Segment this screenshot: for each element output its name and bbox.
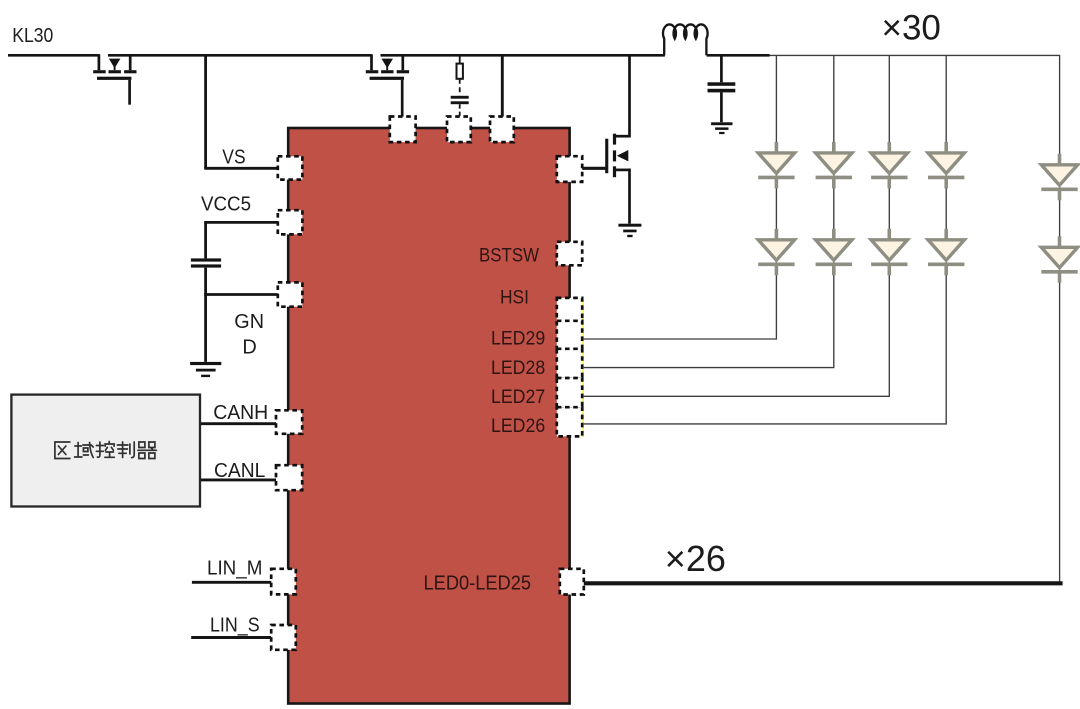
transistor Q1 PMOS high-side switch	[93, 54, 136, 104]
pin HSI	[557, 298, 582, 323]
svg-text:LED0-LED25: LED0-LED25	[424, 572, 532, 594]
LED D3 string2 top	[816, 142, 852, 189]
svg-text:D: D	[242, 336, 256, 358]
svg-text:LED29: LED29	[491, 329, 545, 350]
svg-text:CANH: CANH	[213, 402, 268, 424]
pin VCC5	[278, 210, 303, 234]
svg-text:×30: ×30	[882, 8, 941, 47]
pin VS	[278, 156, 303, 179]
svg-text:GN: GN	[234, 311, 264, 333]
wire GND horizontal to pin	[204, 293, 277, 296]
inductor L1	[663, 24, 708, 55]
wire LED0-LED25 bus x26	[584, 581, 1063, 585]
resistor R1 snubber	[457, 56, 463, 79]
transistor Q3 NMOS low-side	[605, 134, 629, 224]
wire LIN_M	[192, 581, 272, 584]
LED D1 string1 top	[758, 142, 794, 189]
svg-text:BSTSW: BSTSW	[479, 245, 539, 266]
LED D6 string3 bottom	[871, 229, 907, 275]
pin GND	[278, 282, 303, 306]
pin LED26	[557, 407, 582, 436]
wire thin top bus extension to LED strings	[768, 55, 1060, 583]
pin LED27	[557, 378, 582, 408]
pin top 1	[390, 117, 416, 143]
pin LED0-LED25	[560, 569, 584, 595]
LED D10 string5 bottom	[1041, 236, 1077, 282]
ground for Q3 source	[618, 224, 641, 238]
wire CANL	[200, 478, 277, 481]
wire R1 to C3 dashed	[459, 79, 461, 96]
wire VS drop from bus	[204, 54, 207, 168]
svg-text:LED26: LED26	[491, 416, 545, 437]
svg-text:LIN_S: LIN_S	[210, 614, 260, 636]
pin top 2	[447, 117, 471, 143]
LED D8 string4 bottom	[928, 229, 964, 275]
wire capacitor C1 to ground	[204, 268, 207, 362]
svg-text:LED27: LED27	[491, 387, 545, 408]
wire LED string column 1 to pin LED29	[583, 56, 776, 339]
pin LED29	[557, 321, 582, 351]
pin LIN_M	[271, 569, 296, 595]
wire Q3 gate to pin	[582, 167, 607, 170]
capacitor C3 snubber	[451, 96, 469, 104]
wire LED string column 2 to pin LED28	[583, 56, 834, 368]
wire C3 to pin2 dashed	[459, 104, 461, 116]
wire LED string column 4 to pin LED26	[583, 56, 946, 424]
svg-text:CANL: CANL	[214, 460, 265, 482]
wire LED string column 3 to pin LED27	[583, 56, 889, 396]
LED D4 string2 bottom	[816, 229, 852, 275]
pin LIN_S	[271, 625, 296, 650]
ground for C1	[190, 362, 221, 377]
capacitor C1 on VCC5	[191, 258, 221, 267]
op-amp U1 LED driver IC block	[288, 128, 569, 704]
pin CANL	[276, 465, 302, 490]
wire bus segment D inductor to LED strings	[707, 54, 770, 57]
pin BSTSW	[557, 242, 582, 265]
pin gate drive	[557, 156, 582, 182]
wire VS horizontal to pin	[204, 167, 279, 170]
svg-text:LED28: LED28	[491, 358, 545, 379]
wire MOSFET Q3 drain to bus	[628, 54, 631, 138]
node zone controller label CJK	[55, 442, 156, 459]
wire KL30 bus segment A	[8, 54, 99, 57]
wire pin3 drop from bus	[501, 56, 504, 117]
svg-text:KL30: KL30	[12, 25, 53, 47]
svg-text:LIN_M: LIN_M	[207, 558, 262, 580]
svg-text:VS: VS	[222, 147, 245, 169]
svg-text:HSI: HSI	[500, 287, 529, 308]
wire VCC5 node vertical to capacitor	[204, 222, 207, 258]
pin LED28	[557, 349, 582, 379]
capacitor C2 output	[708, 54, 736, 122]
wire CANH	[200, 422, 277, 425]
wire LIN_S	[191, 636, 272, 639]
transistor Q2 PMOS second switch	[366, 54, 409, 118]
LED D9 string5 top	[1041, 154, 1077, 201]
pin CANH	[276, 410, 302, 434]
LED D2 string1 bottom	[758, 229, 794, 275]
wire VCC5 horizontal to pin	[204, 221, 279, 224]
pin top 3	[490, 117, 514, 143]
LED D5 string3 top	[871, 142, 907, 189]
svg-text:VCC5: VCC5	[201, 193, 251, 215]
ground for C2	[711, 122, 732, 134]
wire KL30 bus segment C	[381, 54, 665, 57]
svg-text:×26: ×26	[665, 538, 726, 579]
node yellow highlight on HSI-LED26 pin stack	[581, 300, 583, 437]
node zone controller box	[11, 395, 200, 507]
wire KL30 bus segment B	[108, 54, 372, 57]
LED D7 string4 top	[928, 142, 964, 189]
